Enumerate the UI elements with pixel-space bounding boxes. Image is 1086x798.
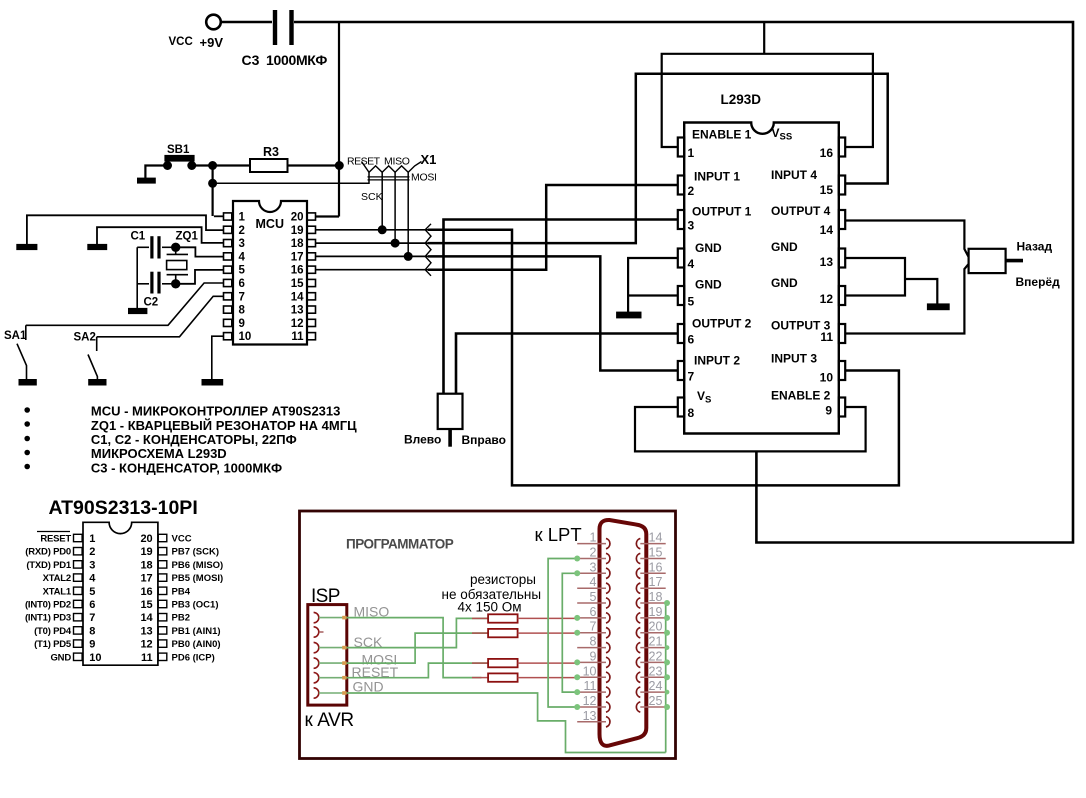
L293D pin stubs left: [678, 138, 684, 417]
svg-text:5: 5: [590, 590, 597, 604]
wire SB1 to R3: [192, 164, 250, 166]
svg-text:17: 17: [291, 251, 304, 263]
wire green SCK to R1 row: [347, 618, 488, 647]
svg-text:GND: GND: [695, 241, 722, 255]
svg-text:INPUT 2: INPUT 2: [694, 354, 740, 368]
svg-text:ENABLE 1: ENABLE 1: [692, 128, 752, 142]
svg-text:20: 20: [649, 620, 663, 634]
svg-text:7: 7: [688, 370, 695, 384]
svg-text:PB3 (OC1): PB3 (OC1): [172, 600, 219, 611]
svg-text:6: 6: [89, 599, 95, 611]
switch SA2: [96, 337, 98, 351]
wire L293D pin4 GND: [628, 258, 678, 313]
svg-text:ENABLE 2: ENABLE 2: [771, 389, 831, 403]
svg-text:3: 3: [89, 559, 95, 571]
svg-text:8: 8: [89, 625, 95, 637]
wire green LPT ground bus pins 18-25: [665, 603, 667, 753]
svg-text:OUTPUT 1: OUTPUT 1: [692, 205, 752, 219]
ISP border pads: [342, 616, 346, 695]
svg-text:к AVR: к AVR: [305, 710, 354, 731]
svg-text:(INT1) PD3: (INT1) PD3: [25, 613, 71, 624]
wire L293D pin11 OUTPUT3 to right motor: [845, 264, 968, 334]
svg-text:резисторы: резисторы: [470, 572, 536, 587]
MCU pin stubs right: [307, 213, 315, 340]
svg-text:11: 11: [820, 330, 833, 344]
svg-text:12: 12: [291, 318, 304, 330]
svg-text:15: 15: [820, 183, 834, 197]
svg-text:9: 9: [239, 318, 245, 330]
svg-text:PB1 (AIN1): PB1 (AIN1): [172, 626, 221, 637]
wire C1 right to ZQ1 node: [162, 246, 176, 248]
connector X1 bus bars: [368, 176, 410, 178]
wire MCU pin1 to RESET node: [214, 215, 224, 217]
svg-text:Назад: Назад: [1017, 240, 1053, 254]
wire RESET to X1 connector: [213, 172, 369, 183]
wire C1 left to rail: [137, 246, 149, 248]
capacitor C2: [150, 272, 153, 294]
svg-text:PD6 (ICP): PD6 (ICP): [172, 652, 215, 663]
node MISO junction: [379, 226, 386, 233]
capacitor C3: [273, 10, 277, 45]
wire green LPT pin3 to pin11: [562, 573, 577, 692]
wire MCU pin2 to ground left: [27, 215, 224, 245]
AT90S2313 pin numbers right column: [140, 533, 153, 664]
ISP pin2 stub: [319, 631, 324, 633]
wire VCC top left segment: [221, 21, 273, 24]
programmer outer box: [300, 511, 676, 759]
wire X1 SCK pin down to MCU pin18 row: [394, 172, 396, 243]
L293D labels left column: [692, 126, 792, 406]
svg-text:18: 18: [291, 238, 304, 250]
svg-text:15: 15: [649, 546, 663, 560]
svg-text:11: 11: [291, 331, 304, 343]
svg-text:RESET: RESET: [347, 156, 381, 168]
svg-text:23: 23: [649, 664, 663, 678]
MCU pin numbers left: [239, 212, 252, 344]
AT90S2313 pinout chip body: [83, 522, 158, 665]
svg-text:INPUT 3: INPUT 3: [771, 352, 817, 366]
svg-text:4: 4: [590, 575, 597, 589]
svg-text:10: 10: [820, 371, 834, 385]
svg-text:20: 20: [140, 533, 152, 545]
motor M1 left/right: [438, 394, 463, 429]
svg-text:GND: GND: [695, 278, 722, 292]
svg-text:SA1: SA1: [4, 330, 27, 342]
MCU pin numbers right: [291, 212, 304, 344]
svg-text:ZQ1: ZQ1: [176, 231, 199, 243]
wire C2 node to MCU pin5: [176, 270, 224, 284]
svg-text:1: 1: [590, 531, 597, 545]
svg-text:12: 12: [140, 639, 152, 651]
svg-text:10: 10: [239, 331, 252, 343]
svg-text:L293D: L293D: [721, 92, 762, 107]
node RESET to X1 junction: [209, 180, 216, 187]
svg-text:MOSI: MOSI: [411, 172, 437, 184]
svg-text:C3 - КОНДЕНСАТОР, 1000МКФ: C3 - КОНДЕНСАТОР, 1000МКФ: [91, 460, 282, 475]
wire MCU pin6 to SA1: [26, 283, 224, 325]
svg-text:1: 1: [239, 212, 246, 224]
svg-text:1: 1: [688, 146, 695, 160]
wire green GND staircase to LPT grounds: [347, 693, 666, 753]
svg-text:16: 16: [820, 146, 834, 160]
svg-text:PB7 (SCK): PB7 (SCK): [172, 547, 220, 558]
svg-text:C2: C2: [144, 297, 159, 309]
AT90S2313 labels left: [25, 534, 72, 664]
svg-text:PB5 (MOSI): PB5 (MOSI): [172, 573, 224, 584]
svg-text:SCK: SCK: [361, 191, 383, 203]
svg-text:14: 14: [649, 531, 663, 545]
resistor R3: [250, 159, 288, 172]
svg-text:15: 15: [291, 278, 304, 290]
svg-text:OUTPUT 4: OUTPUT 4: [771, 204, 831, 218]
svg-text:9: 9: [89, 639, 95, 651]
svg-text:5: 5: [89, 586, 95, 598]
svg-text:8: 8: [688, 406, 695, 420]
svg-text:Вправо: Вправо: [462, 433, 506, 447]
resistor R 150 Om 4: [488, 673, 517, 681]
wire green LPT pin2 to pin12: [548, 559, 577, 708]
svg-text:+9V: +9V: [200, 35, 224, 50]
legend bullets: [26, 408, 29, 411]
wire green RESET to R3 row: [347, 663, 488, 678]
svg-text:7: 7: [239, 291, 245, 303]
svg-text:8: 8: [590, 635, 597, 649]
svg-text:VCC: VCC: [169, 36, 193, 48]
wire C2 left to rail: [137, 283, 149, 285]
switch SB1: [166, 156, 194, 161]
svg-text:6: 6: [688, 333, 695, 347]
svg-text:ПРОГРАММАТОР: ПРОГРАММАТОР: [346, 537, 454, 552]
svg-text:4х 150 Ом: 4х 150 Ом: [458, 599, 522, 614]
svg-text:Влево: Влево: [404, 433, 441, 447]
svg-text:9: 9: [825, 404, 832, 418]
svg-text:MISO: MISO: [384, 156, 410, 168]
wire L293D pin3 OUTPUT1 to left motor: [444, 220, 678, 394]
ground MCU pin10: [203, 380, 223, 384]
svg-text:PB2: PB2: [172, 613, 190, 624]
svg-text:19: 19: [291, 225, 304, 237]
svg-text:ZQ1 - КВАРЦЕВЫЙ РЕЗОНАТОР НА 4: ZQ1 - КВАРЦЕВЫЙ РЕЗОНАТОР НА 4МГЦ: [91, 418, 357, 433]
svg-text:к LPT: к LPT: [535, 524, 582, 545]
capacitor C1: [150, 236, 153, 258]
svg-text:2: 2: [239, 225, 245, 237]
wire MCU pin20 to VCC column: [316, 215, 340, 217]
wire green MISO to R4 row: [347, 618, 482, 678]
svg-text:(T1) PD5: (T1) PD5: [34, 639, 72, 650]
svg-text:(TXD) PD1: (TXD) PD1: [26, 560, 72, 571]
svg-text:3: 3: [688, 219, 695, 233]
wire L293D pin5 GND: [628, 294, 678, 296]
svg-text:4: 4: [89, 573, 96, 585]
svg-text:19: 19: [649, 605, 663, 619]
connector X1 zigzag pins: [362, 162, 422, 173]
svg-text:19: 19: [140, 546, 152, 558]
wire L293D pin12 pin13 loop: [845, 258, 905, 296]
svg-text:C1, C2 - КОНДЕНСАТОРЫ, 22ПФ: C1, C2 - КОНДЕНСАТОРЫ, 22ПФ: [91, 432, 297, 447]
svg-text:10: 10: [583, 664, 597, 678]
svg-text:5: 5: [688, 295, 695, 309]
svg-text:24: 24: [649, 679, 663, 693]
wire X1 MISO pin down to MCU pin19 row: [381, 172, 383, 230]
svg-text:4: 4: [239, 251, 246, 263]
LPT left column socket arcs: [606, 538, 610, 727]
svg-text:18: 18: [140, 559, 152, 571]
bus zigzag marker over port wires: [425, 224, 431, 276]
wire C1 node to MCU pin4: [176, 247, 224, 256]
ground SA2: [89, 380, 105, 384]
svg-text:GND: GND: [50, 652, 71, 663]
wire crystal rail to ground: [136, 247, 138, 309]
svg-text:21: 21: [649, 635, 663, 649]
RESET overline: [37, 531, 70, 533]
motor M2 forward/back: [969, 249, 1006, 273]
resistor R 150 Om 2: [488, 629, 517, 637]
svg-text:16: 16: [140, 586, 152, 598]
svg-text:14: 14: [820, 223, 834, 237]
svg-text:МИКРОСХЕМА L293D: МИКРОСХЕМА L293D: [91, 446, 227, 461]
node ZQ1 top: [172, 244, 179, 251]
L293D pin numbers right: [820, 146, 834, 418]
LPT right column socket arcs: [636, 538, 640, 712]
VCC terminal: [206, 15, 221, 30]
svg-text:11: 11: [584, 679, 597, 693]
wire MCU pin16 to L293D pin2: [316, 269, 429, 271]
LPT left pin numbers: [583, 531, 597, 723]
legend text: [91, 404, 357, 476]
svg-text:13: 13: [583, 709, 597, 723]
wire MCU pin18 to L293D pin15: [316, 242, 429, 244]
wire RESET node down to pin1: [212, 166, 214, 217]
svg-text:13: 13: [291, 305, 304, 317]
svg-text:GND: GND: [353, 679, 384, 695]
AT90S2313 pin numbers left column: [89, 533, 101, 664]
svg-text:17: 17: [140, 573, 152, 585]
svg-text:GND: GND: [771, 240, 798, 254]
node ZQ1 bottom: [172, 280, 179, 287]
svg-text:16: 16: [649, 560, 663, 574]
svg-text:Вперёд: Вперёд: [1016, 275, 1061, 289]
LPT right pin numbers: [649, 531, 663, 708]
svg-text:6: 6: [239, 278, 245, 290]
switch SA1: [25, 325, 27, 340]
ISP pin arcs: [314, 612, 319, 698]
wire GND branch from pin12/13 loop: [905, 279, 937, 305]
svg-text:4: 4: [688, 257, 695, 271]
svg-text:MCU - МИКРОКОНТРОЛЛЕР АТ90S231: MCU - МИКРОКОНТРОЛЛЕР АТ90S2313: [91, 404, 340, 419]
svg-text:AT90S2313-10PI: AT90S2313-10PI: [49, 497, 198, 519]
svg-text:20: 20: [291, 212, 304, 224]
svg-text:12: 12: [583, 694, 597, 708]
wire green MOSI to R2 row: [347, 633, 488, 663]
svg-text:1000МКФ: 1000МКФ: [266, 52, 327, 68]
AT90S2313 pin boxes right: [158, 534, 167, 660]
ground SB1: [138, 179, 155, 183]
ISP connector box: [308, 605, 347, 706]
svg-text:22: 22: [649, 649, 663, 663]
svg-text:9: 9: [590, 649, 597, 663]
svg-text:13: 13: [820, 255, 834, 269]
svg-text:PB0 (AIN0): PB0 (AIN0): [172, 639, 221, 650]
ground crystal rail: [129, 309, 146, 313]
resistor feed red stubs left: [472, 618, 488, 677]
resistor R 150 Om 3: [488, 659, 517, 667]
svg-text:OUTPUT 2: OUTPUT 2: [692, 317, 752, 331]
svg-text:C3: C3: [242, 52, 260, 68]
LPT left column pin lines: [577, 544, 606, 722]
MCU chip body: [233, 201, 307, 345]
wire MCU pin19 to L293D pin10: [316, 229, 429, 231]
node RESET junction: [209, 162, 216, 169]
svg-text:MCU: MCU: [256, 217, 284, 231]
svg-text:GND: GND: [771, 276, 798, 290]
wire MCU pin3 to ground: [97, 227, 224, 245]
L293D chip body: [684, 123, 839, 434]
svg-text:12: 12: [820, 292, 834, 306]
svg-text:C1: C1: [131, 231, 146, 243]
svg-text:XTAL2: XTAL2: [43, 573, 71, 584]
wire VCC branch down to L293D pin20 column: [338, 22, 340, 217]
svg-text:XTAL1: XTAL1: [43, 586, 72, 597]
svg-text:17: 17: [649, 575, 663, 589]
wire C2 right to ZQ1 bottom node: [162, 283, 176, 285]
svg-text:INPUT 4: INPUT 4: [771, 168, 817, 182]
L293D outer VCC loop pins 1 and 16: [662, 54, 873, 147]
DB25 connector outline: [600, 520, 647, 746]
svg-text:6: 6: [590, 605, 597, 619]
svg-text:13: 13: [140, 625, 152, 637]
wire L293D pin14 OUTPUT4 to right motor: [845, 221, 968, 258]
svg-text:(T0) PD4: (T0) PD4: [34, 626, 72, 637]
label резисторы не обязательны 4х 150 Ом: [442, 572, 542, 614]
svg-text:2: 2: [89, 546, 95, 558]
svg-text:16: 16: [291, 265, 304, 277]
ground L293D pins 12-13: [928, 305, 949, 310]
resistor R 150 Om 1: [488, 614, 517, 622]
svg-text:25: 25: [649, 694, 663, 708]
svg-text:2: 2: [688, 184, 695, 198]
wire R3 right to VCC column: [288, 164, 340, 166]
ground pin3: [88, 245, 106, 249]
AT90S2313 pin boxes left: [74, 534, 83, 660]
svg-text:10: 10: [89, 652, 101, 664]
ISP internal pin wires: [319, 618, 343, 693]
node SCK junction: [392, 240, 399, 247]
wire L293D pin8 Vs loop to pin9: [635, 407, 866, 451]
L293D labels right column: [771, 168, 831, 403]
L293D pin stubs right: [839, 138, 845, 417]
wire VCC top rail to right and down to Vs loop: [294, 22, 1073, 543]
svg-text:(INT0) PD2: (INT0) PD2: [25, 600, 71, 611]
wire X1 MOSI pin down to MCU pin17 row: [407, 172, 409, 256]
svg-text:X1: X1: [421, 152, 437, 167]
svg-text:VCC: VCC: [172, 534, 192, 545]
svg-text:1: 1: [89, 533, 95, 545]
svg-text:INPUT 1: INPUT 1: [694, 170, 740, 184]
svg-text:PB4: PB4: [172, 586, 191, 597]
ground SA1: [20, 380, 36, 384]
wire VCC branch down to ENABLE1/VSS loop: [763, 22, 765, 54]
svg-text:PB6 (MISO): PB6 (MISO): [172, 560, 224, 571]
svg-text:3: 3: [239, 238, 245, 250]
svg-text:14: 14: [291, 291, 304, 303]
resistor outputs red to LPT pins: [518, 618, 578, 677]
svg-text:SA2: SA2: [74, 332, 96, 344]
svg-text:2: 2: [590, 546, 597, 560]
green junction dots: [574, 556, 670, 711]
ground L293D pins 4-5: [617, 313, 640, 318]
ground pin2 far left: [17, 245, 36, 249]
L293D pin numbers left: [688, 146, 695, 420]
svg-text:7: 7: [590, 620, 597, 634]
svg-text:5: 5: [239, 265, 246, 277]
MCU pin stubs left: [224, 213, 232, 340]
svg-text:15: 15: [140, 599, 152, 611]
svg-text:3: 3: [590, 560, 597, 574]
crystal ZQ1: [175, 247, 177, 254]
LPT right column pin lines: [640, 544, 667, 707]
svg-text:RESET: RESET: [40, 534, 71, 545]
AT90S2313 labels right: [172, 534, 224, 664]
wire SB1 left to ground: [145, 166, 167, 179]
svg-text:18: 18: [649, 590, 663, 604]
wire MCU pin17 to L293D pin7: [316, 255, 429, 257]
svg-text:(RXD) PD0: (RXD) PD0: [25, 547, 71, 558]
svg-text:8: 8: [239, 305, 246, 317]
wire MCU pin10 to ground: [212, 336, 224, 380]
wire L293D pin6 OUTPUT2 to left motor: [456, 334, 678, 394]
svg-text:SB1: SB1: [167, 144, 190, 156]
svg-text:11: 11: [141, 652, 153, 664]
svg-text:7: 7: [89, 612, 95, 624]
node MOSI junction: [405, 253, 412, 260]
node R3/VCC junction: [336, 162, 343, 169]
wire MCU pin7 to SA2: [97, 296, 224, 337]
svg-text:R3: R3: [263, 145, 279, 159]
svg-text:14: 14: [140, 612, 153, 624]
